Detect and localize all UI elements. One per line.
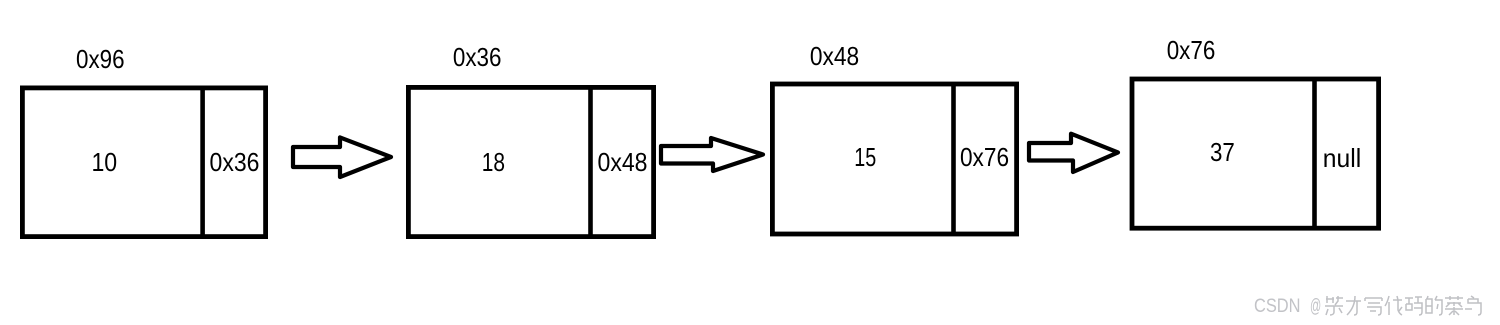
svg-text:0x48: 0x48 [810,41,859,71]
svg-text:null: null [1323,143,1361,173]
arrow 1 [293,137,391,177]
node 3 box (0x48) [772,84,1016,234]
hanzi 码 [1405,297,1422,315]
hanzi 写 [1365,298,1382,315]
hanzi 力 [1346,296,1361,315]
svg-text:0x36: 0x36 [210,147,260,177]
arrow 3 [1029,134,1118,172]
svg-text:37: 37 [1210,137,1235,167]
node 1 divider [200,88,205,237]
svg-text:18: 18 [482,147,505,177]
svg-text:10: 10 [91,147,117,177]
svg-text:0x48: 0x48 [598,147,648,177]
svg-text:0x76: 0x76 [960,142,1009,172]
arrow 2 [661,138,763,171]
node 4 box (0x76) [1132,79,1379,228]
hanzi 鸟 [1465,296,1481,315]
svg-text:0x36: 0x36 [453,42,502,72]
svg-text:CSDN: CSDN [1254,296,1301,317]
node 2 box (0x36) [408,87,653,236]
hanzi 的 [1426,296,1442,315]
watermark hanzi (simulated glyph strokes) [1325,296,1481,315]
node 2 divider [588,88,593,237]
svg-text:0x96: 0x96 [76,44,125,74]
node 4 divider [1312,79,1317,228]
node 1 box (0x96) [22,88,265,237]
node 3 divider [951,84,956,234]
svg-text:15: 15 [854,142,876,172]
svg-text:@: @ [1310,296,1321,317]
hanzi 努 [1325,296,1343,315]
hanzi 菜 [1445,296,1463,315]
svg-text:0x76: 0x76 [1167,35,1216,65]
hanzi 代 [1385,296,1402,315]
